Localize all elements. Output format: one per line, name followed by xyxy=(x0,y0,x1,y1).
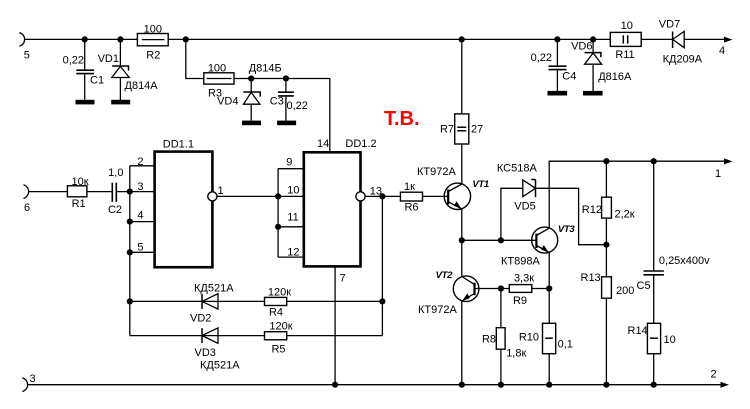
svg-text:R2: R2 xyxy=(146,50,160,62)
resistor R11 xyxy=(610,32,641,46)
node pin11 xyxy=(275,224,281,230)
svg-text:R1: R1 xyxy=(72,198,86,210)
capacitor C3 xyxy=(278,79,294,121)
svg-text:VD7: VD7 xyxy=(659,19,680,31)
zener diode VD5 xyxy=(501,180,607,245)
svg-text:7: 7 xyxy=(340,273,346,285)
svg-text:C5: C5 xyxy=(637,280,651,292)
svg-text:4: 4 xyxy=(719,45,725,57)
diode VD3 xyxy=(202,328,218,343)
node pin13 xyxy=(379,193,385,199)
svg-text:0,22: 0,22 xyxy=(63,55,84,67)
svg-text:VD4: VD4 xyxy=(217,95,238,107)
svg-text:КТ972А: КТ972А xyxy=(418,304,457,316)
node VD5 branch xyxy=(498,237,504,243)
svg-text:Т.В.: Т.В. xyxy=(384,108,420,130)
wire VT1 collector xyxy=(461,144,463,184)
node R10 gnd xyxy=(546,382,552,388)
zener diode VD1 xyxy=(112,39,129,100)
node VD1 top xyxy=(117,36,123,42)
wire DD1.1 out to DD1.2 xyxy=(217,195,279,197)
wire feedback link xyxy=(381,301,383,335)
node pin7 gnd xyxy=(332,382,338,388)
svg-text:DD1.2: DD1.2 xyxy=(345,138,376,150)
resistor R10 xyxy=(543,323,556,353)
wire R12-R13 xyxy=(605,218,607,277)
resistor R5 xyxy=(265,332,287,340)
terminal 5 xyxy=(19,33,24,47)
node C3 top xyxy=(283,75,289,81)
svg-text:0,22: 0,22 xyxy=(531,52,552,64)
capacitor C2 xyxy=(112,183,116,202)
svg-text:10: 10 xyxy=(287,185,299,197)
svg-text:C3: C3 xyxy=(270,95,284,107)
resistor R9 xyxy=(509,285,532,293)
svg-text:R11: R11 xyxy=(615,49,634,61)
wire VT2 collector xyxy=(461,240,463,276)
svg-text:R4: R4 xyxy=(269,307,283,319)
op-amp U DD1.2 box xyxy=(304,152,361,266)
svg-text:Д816А: Д816А xyxy=(598,71,632,83)
wire input 6 xyxy=(29,191,130,193)
node R12 bottom xyxy=(603,242,609,248)
node VT2e gnd xyxy=(459,382,465,388)
svg-text:КД521А: КД521А xyxy=(200,360,240,372)
svg-text:R13: R13 xyxy=(581,272,601,284)
svg-text:R12: R12 xyxy=(582,204,602,216)
svg-text:3: 3 xyxy=(29,373,35,385)
resistor R6 xyxy=(400,192,422,201)
node pin3 xyxy=(127,189,133,195)
pin 1 bubble DD1.1 xyxy=(208,192,217,201)
svg-text:1к: 1к xyxy=(404,181,415,193)
wire R10 top xyxy=(548,289,550,324)
node R13 gnd xyxy=(603,382,609,388)
node pin5 xyxy=(127,249,133,255)
svg-text:C1: C1 xyxy=(90,75,104,87)
node R12 top xyxy=(603,158,609,164)
svg-text:5: 5 xyxy=(137,242,143,254)
node VD4 top xyxy=(248,75,254,81)
svg-text:VD5: VD5 xyxy=(514,201,535,213)
svg-text:VD2: VD2 xyxy=(190,313,211,325)
svg-text:КС518А: КС518А xyxy=(497,163,538,175)
wire R10 bottom xyxy=(548,354,550,385)
svg-text:0,22: 0,22 xyxy=(287,100,308,112)
zener diode VD6 xyxy=(585,39,602,91)
ground (C3) xyxy=(277,121,296,126)
resistor R7 xyxy=(455,114,469,144)
wire pin 10 stub xyxy=(278,195,304,197)
node pin4 xyxy=(127,219,133,225)
wire R6 to VT1 base xyxy=(423,195,449,197)
transistor Q VT3 xyxy=(532,227,558,253)
transistor Q VT1 xyxy=(444,183,470,209)
ground (VD1) xyxy=(111,100,130,105)
wire DD1.2 output xyxy=(365,195,401,197)
svg-text:R10: R10 xyxy=(519,332,539,344)
svg-text:VD1: VD1 xyxy=(98,53,119,65)
diode VD7 xyxy=(673,31,725,48)
ground (C1) xyxy=(76,100,95,105)
svg-text:VD6: VD6 xyxy=(571,41,592,53)
svg-text:1: 1 xyxy=(715,168,721,180)
svg-text:5: 5 xyxy=(24,50,30,62)
wire VT1 emitter xyxy=(461,209,463,241)
node feedback top xyxy=(379,298,385,304)
node C4 top xyxy=(554,36,560,42)
wire VT3 emitter xyxy=(548,253,550,289)
node R9 left xyxy=(498,285,504,291)
svg-text:R14: R14 xyxy=(628,325,648,337)
wire R14 bottom xyxy=(653,354,655,385)
svg-text:2: 2 xyxy=(137,156,143,168)
wire R13 bottom xyxy=(605,298,607,385)
node C1 top xyxy=(82,36,88,42)
svg-text:6: 6 xyxy=(24,202,30,214)
wire VT3 collector to rail 1 xyxy=(549,161,724,228)
wire pin 11 stub xyxy=(278,226,304,228)
svg-text:2,2к: 2,2к xyxy=(615,209,635,221)
pin 13 bubble DD1.2 xyxy=(356,192,365,201)
resistor R1 xyxy=(67,186,87,197)
wire pin 4 stub xyxy=(130,221,155,223)
svg-text:100: 100 xyxy=(144,23,162,35)
svg-text:VD3: VD3 xyxy=(195,347,216,359)
svg-text:КД209А: КД209А xyxy=(663,54,703,66)
wire R3 branch xyxy=(186,39,330,152)
capacitor C1 xyxy=(76,39,94,99)
diode VD2 xyxy=(202,294,218,309)
wire net VT2C/VD5/VT3B xyxy=(462,239,537,241)
resistor R12 xyxy=(602,197,612,218)
svg-text:R5: R5 xyxy=(271,344,285,356)
node pin10 xyxy=(275,193,281,199)
svg-text:3,3к: 3,3к xyxy=(514,273,534,285)
svg-text:3: 3 xyxy=(137,181,143,193)
node R8 gnd xyxy=(498,382,504,388)
svg-text:1,8к: 1,8к xyxy=(506,348,526,360)
capacitor C5 xyxy=(644,161,664,323)
svg-text:R8: R8 xyxy=(482,334,496,346)
wire DD1.1 input bus xyxy=(129,166,131,302)
wire DD1.1 bus to line2 xyxy=(129,301,131,335)
wire VT2 base to R9 xyxy=(475,288,510,290)
svg-text:2: 2 xyxy=(710,369,716,381)
svg-text:0,25x400v: 0,25x400v xyxy=(659,255,710,267)
svg-text:4: 4 xyxy=(137,210,143,222)
svg-text:КТ972А: КТ972А xyxy=(417,166,456,178)
svg-text:200: 200 xyxy=(616,285,634,297)
svg-text:Д814А: Д814А xyxy=(125,80,159,92)
svg-text:1: 1 xyxy=(218,185,224,197)
terminal 6 xyxy=(24,185,29,199)
wire R7 top xyxy=(461,39,463,114)
svg-text:R6: R6 xyxy=(404,202,418,214)
svg-text:VT2: VT2 xyxy=(436,270,454,281)
wire R8 top xyxy=(500,289,502,328)
svg-text:R7: R7 xyxy=(440,123,454,135)
capacitor C4 xyxy=(549,39,567,91)
svg-text:13: 13 xyxy=(370,186,382,198)
node VT1e-VT2c xyxy=(459,237,465,243)
wire DD1.2 input bus xyxy=(277,169,279,257)
node C5 top xyxy=(651,158,657,164)
resistor R8 xyxy=(496,328,505,350)
svg-text:VT1: VT1 xyxy=(472,179,489,190)
wire R8 bottom xyxy=(500,349,502,385)
svg-text:0,1: 0,1 xyxy=(558,339,573,351)
svg-text:Д814Б: Д814Б xyxy=(249,62,282,74)
resistor R14 xyxy=(647,323,660,353)
op-amp U DD1.1 box xyxy=(155,152,213,268)
node VD6 top xyxy=(590,36,596,42)
wire feedback line 2 xyxy=(130,335,383,337)
arrow terminal 2 xyxy=(721,382,729,388)
svg-text:C2: C2 xyxy=(108,204,122,216)
svg-text:27: 27 xyxy=(471,123,483,135)
wire bottom rail xyxy=(27,384,721,386)
node after R2 xyxy=(183,36,189,42)
wire R9 right xyxy=(532,288,549,290)
transistor Q VT2 xyxy=(453,276,479,302)
svg-text:100: 100 xyxy=(208,62,226,74)
zener diode VD4 xyxy=(243,79,260,121)
wire pin 9 stub xyxy=(278,168,304,170)
wire pin 7 xyxy=(334,266,336,384)
wire top rail xyxy=(25,38,673,40)
svg-text:9: 9 xyxy=(286,157,292,169)
svg-text:R9: R9 xyxy=(513,295,527,307)
ground (C4) xyxy=(548,91,568,96)
svg-text:10: 10 xyxy=(621,20,633,32)
svg-text:КТ898А: КТ898А xyxy=(501,256,540,268)
wire pin 2 stub xyxy=(130,165,155,167)
svg-text:120к: 120к xyxy=(268,286,291,298)
terminal 3 xyxy=(22,378,27,392)
wire pin 5 stub xyxy=(130,251,155,253)
ground (VD6) xyxy=(583,91,603,96)
wire pin13 feedback vertical xyxy=(381,196,383,301)
svg-text:120к: 120к xyxy=(269,320,292,332)
svg-text:1,0: 1,0 xyxy=(108,167,123,179)
svg-text:DD1.1: DD1.1 xyxy=(163,138,194,150)
wire feedback line 1 xyxy=(130,300,383,302)
resistor R2 xyxy=(137,34,168,46)
wire pin 12 stub xyxy=(278,256,304,258)
svg-text:10: 10 xyxy=(664,334,676,346)
node R7 rail xyxy=(459,36,465,42)
resistor R4 xyxy=(265,297,287,305)
svg-text:КД521А: КД521А xyxy=(194,283,234,295)
node R14 gnd xyxy=(651,382,657,388)
ground (VD4) xyxy=(242,121,261,126)
svg-text:11: 11 xyxy=(287,212,298,224)
wire VT2 emitter xyxy=(461,301,463,385)
arrow terminal 1 xyxy=(724,158,732,164)
wire pin 3 stub xyxy=(130,191,155,193)
svg-text:12: 12 xyxy=(287,247,299,259)
resistor R13 xyxy=(602,277,612,298)
svg-text:C4: C4 xyxy=(562,71,576,83)
node R9 right xyxy=(546,285,552,291)
node feedback left xyxy=(127,298,133,304)
svg-text:VT3: VT3 xyxy=(558,224,576,235)
arrow terminal 4 xyxy=(724,37,732,43)
svg-text:10к: 10к xyxy=(71,176,88,188)
svg-text:14: 14 xyxy=(317,138,329,150)
wire R12 top xyxy=(605,161,607,197)
resistor R3 xyxy=(204,73,234,84)
